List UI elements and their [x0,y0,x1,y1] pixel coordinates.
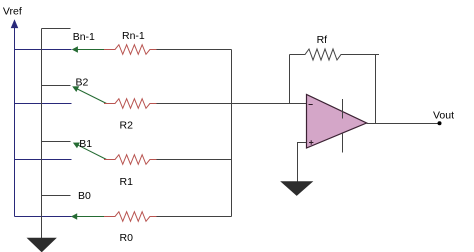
svg-text:R1: R1 [120,176,134,188]
label B2 [76,76,89,88]
label B1 [79,138,92,150]
label R2 [120,120,134,132]
label R0 [120,232,134,244]
label R1 [120,176,134,188]
wire R2 to summing bus [157,103,232,105]
op-amp positive supply pin [342,99,344,119]
wire ground bus to B2 upper contact [42,85,71,87]
wire ground bus to Bn-1 upper contact [42,28,71,30]
wire Vref to switch B0 contact [15,216,72,218]
wire summing bus [231,50,233,217]
wire Rn-1 to summing bus [157,49,232,51]
wire Vref to switch Bn-1 contact [15,49,72,51]
svg-text:Rf: Rf [317,34,328,46]
label Rn-1 [122,30,145,42]
svg-text:B1: B1 [79,138,92,150]
wire ground bus to B1 upper contact [42,141,71,143]
svg-text:Rn-1: Rn-1 [122,30,145,42]
wire Vref to switch B2 contact [15,103,72,105]
wire R1 to summing bus [157,159,232,161]
label Bn-1 [73,31,95,43]
node Vout terminal dot [438,121,442,125]
svg-text:R2: R2 [120,120,134,132]
wire R0 to summing bus [157,216,232,218]
switch B1 (thrown to ground contact) [73,143,107,160]
resistor R1 [104,155,160,165]
Vref source arrow [11,20,18,217]
wire feedback left riser [289,55,291,104]
svg-text:B2: B2 [76,76,89,88]
resistor R2 [104,99,160,109]
svg-text:B0: B0 [78,190,91,202]
svg-text:Bn-1: Bn-1 [73,31,95,43]
label B0 [78,190,91,202]
node Vref label [3,5,22,17]
op-amp U1 [307,95,367,149]
wire ground bus [41,29,43,239]
svg-text:Vout: Vout [433,109,454,121]
svg-text:R0: R0 [120,232,134,244]
ground (op-amp non-inverting input) [282,182,313,196]
label Rf [317,34,328,46]
resistor Rf [290,49,380,60]
wire summing bus to op-amp inverting input [232,103,307,105]
switch B0 (closed to Vref) [71,213,104,219]
wire feedback right riser to output [375,55,377,124]
switch B2 (thrown to ground contact) [72,86,106,103]
ground (left, bottom of bus) [28,238,56,251]
svg-text:Vref: Vref [3,5,22,17]
wire op-amp non-inverting input to ground [298,143,307,182]
wire op-amp output to Vout [367,123,440,125]
resistor R0 [104,212,160,222]
wire ground bus to B0 upper contact [42,195,71,197]
wire Vref to switch B1 contact [15,159,72,161]
resistor Rn-1 [104,45,160,55]
label Vout [433,109,454,121]
switch Bn-1 (closed to Vref) [72,46,104,52]
op-amp negative supply pin [342,133,344,153]
